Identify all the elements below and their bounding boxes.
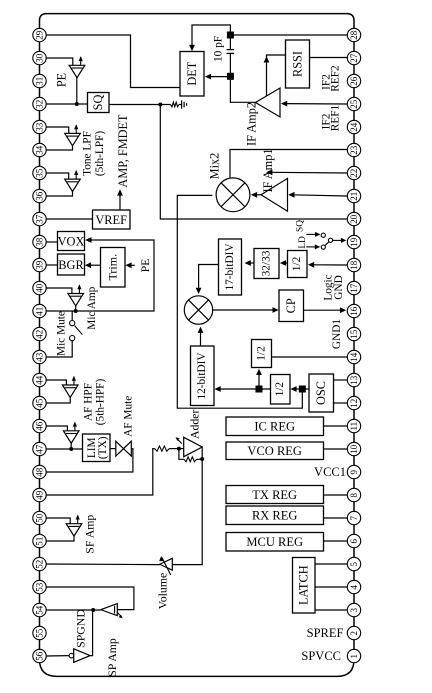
switch blade LD/SQ [325, 242, 330, 246]
wire IF Amp2 to RSSI [267, 55, 286, 96]
wire phase det to CP [213, 309, 276, 311]
svg-text:VOX: VOX [58, 235, 85, 249]
arrow into Mix2 left [216, 193, 222, 199]
svg-text:SQ: SQ [295, 220, 305, 232]
svg-text:45: 45 [35, 398, 45, 408]
wire OSC to pin13 [334, 379, 348, 381]
svg-text:SF Amp: SF Amp [83, 515, 97, 554]
arrow into phase det top [196, 288, 202, 294]
svg-text:Volume: Volume [155, 573, 169, 610]
wire adder feedback left [179, 449, 184, 460]
wire IF Amp2 output to cap node [230, 76, 255, 102]
pin 31 [33, 74, 46, 87]
svg-text:42: 42 [35, 330, 45, 339]
svg-text:22: 22 [349, 169, 359, 178]
pin 2 [347, 626, 360, 639]
wire pin21 to IF Amp1 input [291, 195, 347, 196]
svg-text:AF Mute: AF Mute [123, 396, 135, 437]
pin 13 [347, 373, 360, 386]
wire LATCH to pin5 [315, 563, 347, 565]
junction square cap top [227, 32, 234, 39]
block VREF [93, 210, 131, 229]
pin 39 [33, 258, 46, 271]
switch contact LD [321, 245, 325, 249]
svg-text:AMP, FMDET: AMP, FMDET [116, 114, 130, 188]
arrow into phase det bottom [198, 327, 204, 333]
op-amp Volume [160, 558, 173, 570]
wire 1/2 B to pin14 [272, 356, 348, 358]
svg-text:10: 10 [349, 444, 359, 454]
wire 1/2 A to 32/33 [282, 262, 287, 264]
svg-text:VREF: VREF [95, 213, 127, 227]
block 17-bitDIV [219, 239, 242, 295]
switch Mic Mute contact bottom [70, 336, 75, 341]
svg-text:51: 51 [35, 537, 45, 546]
inverter bubble [69, 653, 74, 658]
svg-text:39: 39 [35, 260, 45, 270]
arrow into Trim [125, 262, 131, 268]
wire divider bus to 12-bitDIV [218, 388, 271, 390]
svg-text:VCC1: VCC1 [314, 465, 346, 479]
svg-text:6: 6 [349, 538, 359, 543]
block SQ [88, 93, 110, 113]
mixer Mix2 [216, 178, 250, 212]
svg-text:46: 46 [35, 421, 45, 431]
arrow into 1/2 A [308, 262, 314, 268]
op-amp Mic Amp [68, 294, 84, 306]
arrow into IF Amp2 [281, 101, 287, 107]
svg-text:21: 21 [349, 192, 359, 201]
svg-text:(5th-HPF): (5th-HPF) [95, 379, 107, 426]
wire pin41 to Mic Mute switch [71, 311, 73, 320]
svg-text:(5th-LPF): (5th-LPF) [94, 131, 106, 176]
arrow into pin16 [340, 307, 346, 313]
pin 55 [33, 626, 46, 639]
pin 50 [33, 511, 46, 524]
wire pin47 to LIM(TX) [46, 448, 82, 450]
svg-text:35: 35 [35, 168, 45, 178]
op-amp LIM input amp [63, 431, 79, 443]
svg-text:IF Amp1: IF Amp1 [261, 148, 275, 192]
svg-text:IF Amp2: IF Amp2 [245, 102, 259, 146]
block 12-bitDIV [191, 346, 215, 406]
pin 1 [347, 649, 360, 662]
arrow into pin19 [341, 238, 347, 243]
wire SP driver output to pin54 [46, 609, 101, 611]
svg-text:14: 14 [349, 352, 359, 362]
svg-text:10 pF: 10 pF [213, 36, 225, 62]
svg-text:34: 34 [35, 145, 45, 155]
svg-text:47: 47 [35, 444, 45, 454]
wire IF Amp1 output to Mix2 [254, 194, 261, 196]
pin 35 [33, 166, 46, 179]
svg-text:29: 29 [35, 30, 45, 40]
wire pin23 to Mix2 top [230, 150, 347, 180]
block 32/33 divider [254, 249, 279, 279]
svg-text:55: 55 [35, 628, 45, 638]
wire LATCH to pin3 [315, 609, 347, 611]
pin 48 [33, 465, 46, 478]
wire cap bottom to DET right arrow [208, 76, 230, 78]
svg-text:(TX): (TX) [97, 436, 109, 459]
switch LD/SQ: LD contact wire [306, 246, 317, 248]
svg-text:TX REG: TX REG [252, 488, 297, 502]
node junction squelch [158, 103, 162, 107]
pin 49 [33, 488, 46, 501]
wire cap top to DET top arrow [192, 25, 230, 50]
wire ToneLPF amp1 output to pin34 [46, 146, 72, 150]
pin 19 [347, 235, 360, 248]
wire adder feedback right [197, 458, 203, 460]
wire pin18 to 1/2 A [310, 264, 347, 266]
block IC REG [226, 417, 324, 436]
wire squelch net to pin20 [160, 105, 347, 220]
pin 30 [33, 51, 46, 64]
wire Mic Mute to pin43 [46, 341, 72, 357]
switch Mic Mute contact top [70, 321, 75, 326]
wire PE amp output to pin32 net [76, 78, 78, 104]
wire pin25 to IF Amp2 input [284, 103, 347, 105]
svg-text:Tone LPF: Tone LPF [82, 131, 94, 176]
node adder output junction [200, 457, 204, 461]
switch Mic Mute blade [75, 326, 83, 335]
svg-text:Adder: Adder [187, 409, 201, 439]
arrow into 12-bitDIV [214, 386, 220, 392]
node adder summing junction [177, 447, 181, 451]
pin 40 [33, 281, 46, 294]
resistor adder feedback [184, 457, 197, 462]
arrow into BGR [85, 262, 91, 268]
op-amp PE [69, 65, 85, 77]
pin 34 [33, 143, 46, 156]
wire TX REG to pin8 [324, 494, 348, 496]
pin 26 [347, 74, 360, 87]
svg-text:8: 8 [349, 492, 359, 497]
wire divider bus up to 1/2 B [258, 371, 260, 386]
arrow up to RSSI [264, 56, 270, 62]
arrow into CP [273, 307, 279, 313]
resistor squelch [171, 102, 180, 107]
op-amp SF Amp [66, 524, 82, 536]
svg-text:32: 32 [35, 100, 45, 109]
svg-text:49: 49 [35, 490, 45, 500]
switch pole LD/SQ [328, 238, 332, 242]
pin 6 [347, 534, 360, 547]
arrow into DET right [205, 74, 211, 80]
wire resistor to adder node [169, 448, 184, 450]
svg-text:28: 28 [349, 30, 359, 40]
wire pin33 to ToneLPF amp1 input [46, 127, 68, 133]
wire IC REG to pin11 [324, 425, 348, 427]
op-amp IF Amp2 [256, 88, 281, 117]
svg-text:37: 37 [35, 214, 45, 224]
wire OSC to pin12 [334, 402, 348, 404]
svg-text:24: 24 [349, 122, 359, 132]
pin 52 [33, 557, 46, 570]
svg-text:12: 12 [349, 399, 359, 408]
wire pin41 bus to VOX arrow [46, 240, 154, 311]
wire 17-bitDIV to phase det [199, 265, 219, 293]
mixer phase detector [184, 296, 212, 324]
wire AF HPF amp output to pin45 [46, 397, 70, 403]
switch LD/SQ: SQ contact wire [306, 233, 317, 235]
svg-text:20: 20 [349, 214, 359, 224]
ground squelch [179, 104, 182, 106]
arrow into VOX [85, 237, 91, 243]
svg-text:SPVCC: SPVCC [301, 649, 341, 663]
arrow into DET top [189, 45, 195, 51]
op-amp Tone LPF 2 [65, 179, 81, 191]
svg-text:1/2: 1/2 [291, 256, 303, 271]
svg-text:IC REG: IC REG [254, 420, 295, 434]
block VCO REG [226, 442, 324, 460]
svg-text:LIM: LIM [86, 437, 98, 458]
pin 28 [347, 28, 360, 41]
svg-text:Mix2: Mix2 [208, 153, 222, 180]
svg-text:12-bitDIV: 12-bitDIV [196, 352, 208, 400]
svg-text:1/2: 1/2 [256, 346, 268, 361]
svg-text:17-bitDIV: 17-bitDIV [224, 243, 236, 291]
arrow into 32/33 [280, 260, 286, 266]
wire RSSI to pin27 [310, 57, 348, 59]
svg-text:SQ: SQ [91, 95, 105, 111]
pin 12 [347, 396, 360, 409]
wire CP to pin16 [304, 309, 343, 311]
op-amp IF Amp1 [261, 178, 288, 211]
wire Trim to BGR arrow [88, 264, 101, 266]
arrow into Mix2 right [251, 192, 257, 198]
wire SP inverter output to SP node [90, 610, 92, 656]
pin 11 [347, 419, 360, 432]
block DET [180, 52, 204, 97]
svg-text:32/33: 32/33 [261, 250, 273, 276]
wire pin44 to AF HPF amp input [46, 380, 66, 385]
pin 20 [347, 212, 360, 225]
svg-text:9: 9 [349, 469, 359, 474]
wire PE label arrow to Trim [129, 264, 135, 266]
svg-text:VCO REG: VCO REG [247, 444, 302, 458]
svg-text:LD: LD [298, 236, 308, 249]
wire AF Mute valve to pin48 [46, 449, 133, 472]
switch contact SQ [321, 233, 325, 237]
svg-text:19: 19 [349, 237, 359, 247]
svg-text:17: 17 [349, 283, 359, 293]
svg-text:25: 25 [349, 99, 359, 109]
pin 14 [347, 350, 360, 363]
pin 54 [33, 603, 46, 616]
arrow into IF Amp1 [288, 192, 294, 198]
svg-text:36: 36 [35, 191, 45, 201]
wire pin52 to volume amp [46, 563, 160, 566]
svg-text:54: 54 [35, 605, 45, 615]
wire OSC node to OSC [306, 388, 310, 390]
svg-text:41: 41 [35, 307, 45, 316]
svg-text:16: 16 [349, 306, 359, 316]
op-amp Tone LPF 1 [65, 133, 81, 145]
resistor adder input [155, 446, 170, 451]
svg-text:AF HPF: AF HPF [83, 383, 95, 421]
valve AF Mute [116, 441, 132, 456]
svg-text:GND: GND [333, 275, 345, 299]
svg-text:CP: CP [284, 298, 298, 313]
svg-text:3: 3 [349, 607, 359, 612]
pin 38 [33, 235, 46, 248]
pin 10 [347, 442, 360, 455]
pin 18 [347, 258, 360, 271]
svg-text:SPGND: SPGND [73, 609, 87, 648]
pin 44 [33, 373, 46, 386]
svg-text:7: 7 [349, 515, 359, 520]
arrow into 1/2 C [290, 386, 296, 392]
svg-text:1: 1 [349, 654, 359, 659]
pin 16 [347, 304, 360, 317]
svg-text:REF1: REF1 [330, 105, 342, 131]
op-amp SP driver [101, 604, 118, 616]
svg-text:OSC: OSC [314, 381, 328, 405]
svg-text:SP Amp: SP Amp [105, 638, 119, 677]
svg-text:SPREF: SPREF [307, 626, 344, 640]
block RSSI [286, 40, 310, 88]
svg-text:5: 5 [349, 561, 359, 566]
wire 12-bitDIV to phase det [200, 329, 202, 346]
wire pin35 to ToneLPF amp2 input [46, 173, 68, 179]
svg-text:11: 11 [349, 422, 359, 431]
svg-text:40: 40 [35, 283, 45, 293]
wire SQ output to squelch net [109, 104, 171, 106]
pin 42 [33, 327, 46, 340]
pin 15 [347, 327, 360, 340]
svg-text:Mic Amp: Mic Amp [86, 286, 98, 329]
wire pin29 to DET input [46, 35, 179, 88]
pin 17 [347, 281, 360, 294]
pin 7 [347, 511, 360, 524]
svg-text:53: 53 [35, 582, 45, 592]
svg-text:52: 52 [35, 560, 45, 569]
wire SF amp output to pin51 [46, 536, 74, 541]
pin 32 [33, 97, 46, 110]
wire pin28 to coupling node [230, 34, 347, 36]
node junction Mic Amp output [74, 309, 78, 313]
pin 3 [347, 603, 360, 616]
pin 51 [33, 534, 46, 547]
svg-text:RSSI: RSSI [291, 51, 305, 77]
pin 43 [33, 350, 46, 363]
arrow SQ contact [315, 232, 321, 237]
wire RX REG to pin7 [324, 517, 348, 519]
wire VREF arrow up to AMP FMDET [119, 191, 121, 210]
arrow LD contact [315, 244, 321, 249]
svg-text:13: 13 [349, 375, 359, 385]
svg-text:23: 23 [349, 145, 359, 155]
svg-text:50: 50 [35, 513, 45, 523]
arrow pin22 [266, 169, 272, 175]
arrow into 17-bitDIV [245, 260, 251, 266]
pin 8 [347, 488, 360, 501]
op-amp SP inverter [74, 649, 91, 663]
pin 45 [33, 396, 46, 409]
wire pin39 to BGR [46, 264, 57, 266]
pin 29 [33, 28, 46, 41]
pin 27 [347, 51, 360, 64]
arrow volume control [162, 557, 171, 575]
pin 53 [33, 580, 46, 593]
wire 32/33 to 17-bitDIV [248, 262, 254, 264]
wire pin22 arrow [270, 171, 348, 174]
svg-text:Trim.: Trim. [106, 254, 120, 281]
svg-text:Mic Mute: Mic Mute [56, 311, 68, 356]
wire VCO loop: Mix2 arrow, left bus, bottom bus [177, 195, 302, 408]
capacitor C 10pF [229, 35, 231, 50]
svg-text:31: 31 [35, 77, 45, 86]
block MCU REG [226, 533, 324, 552]
svg-text:27: 27 [349, 53, 359, 63]
svg-text:REF2: REF2 [330, 65, 342, 92]
block LATCH [293, 558, 316, 614]
wire LATCH to pin4 [315, 586, 347, 588]
wire pin30 to PE amp input [46, 58, 73, 65]
wire VCO REG to pin10 [324, 448, 348, 450]
block TX REG [226, 486, 324, 504]
wire LIM amp output to pin47 net [70, 443, 72, 449]
pin 46 [33, 419, 46, 432]
wire pin40 to Mic Amp input [46, 288, 72, 294]
pin 56 [33, 649, 46, 662]
wire pole to pin19 [333, 239, 343, 241]
pin 9 [347, 465, 360, 478]
arrow SP driver supply [118, 613, 121, 617]
pin 23 [347, 143, 360, 156]
block 1/2 divider C [271, 375, 291, 405]
svg-text:PE: PE [55, 73, 69, 87]
svg-text:15: 15 [349, 329, 359, 339]
wire adder output to volume [172, 447, 202, 565]
svg-text:RX REG: RX REG [252, 509, 298, 523]
svg-text:26: 26 [349, 76, 359, 86]
junction square OSC node [299, 386, 306, 393]
wire pin53 to SP driver input [46, 587, 134, 610]
pin 22 [347, 166, 360, 179]
svg-text:MCU REG: MCU REG [246, 535, 303, 549]
svg-text:2: 2 [349, 631, 359, 636]
svg-text:56: 56 [35, 651, 45, 661]
wire pin50 to SF amp input [46, 518, 70, 524]
block LIM (TX) [83, 434, 111, 462]
pin 25 [347, 97, 360, 110]
pin 4 [347, 580, 360, 593]
node junction SP output [91, 608, 95, 612]
block Trim [101, 248, 126, 288]
junction square cap bottom [227, 73, 234, 80]
svg-text:GND1: GND1 [331, 319, 343, 349]
wire pin46 to LIM amp input [46, 426, 67, 431]
block OSC [309, 374, 334, 412]
wire MCU REG to pin6 [324, 540, 348, 542]
op-amp AF HPF [62, 385, 78, 397]
svg-text:BGR: BGR [58, 258, 84, 272]
block RX REG [226, 506, 324, 525]
block BGR [58, 254, 85, 275]
wire OSC node to half divider C [294, 388, 300, 390]
block CP charge pump [279, 290, 304, 322]
arrow from VREF up [117, 189, 123, 195]
wire ToneLPF amp2 output to pin36 [46, 192, 72, 197]
svg-text:33: 33 [35, 122, 45, 132]
svg-text:4: 4 [349, 584, 359, 589]
junction square divider bus [256, 386, 263, 393]
pin 5 [347, 557, 360, 570]
block 1/2 divider B [252, 340, 272, 368]
IC body outline [40, 14, 355, 677]
